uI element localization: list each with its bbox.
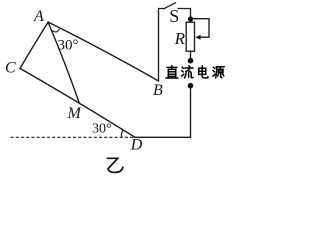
wire line AC [20, 22, 48, 68]
wire incline CD [20, 68, 135, 137]
wire from switch to top-right corner down to junction [178, 9, 191, 17]
svg-text:C: C [5, 60, 16, 77]
svg-text:A: A [33, 8, 44, 25]
angle arc at vertex A [53, 29, 60, 32]
wire resistor bottom to supply top terminal [190, 51, 192, 58]
dashed horizontal baseline at D [11, 136, 135, 138]
supply terminal dot lower [188, 83, 194, 89]
svg-text:30°: 30° [58, 38, 79, 54]
supply terminal dot upper [188, 58, 194, 64]
resistor R body [186, 22, 194, 51]
svg-text:D: D [130, 136, 143, 153]
switch S blade [164, 3, 176, 9]
rheostat tap wire with bend [191, 19, 210, 38]
svg-text:B: B [153, 82, 163, 99]
svg-text:R: R [174, 29, 186, 48]
DC supply label: char dian [199, 66, 208, 78]
svg-text:30°: 30° [92, 122, 112, 137]
rheostat arrow head [195, 35, 200, 40]
figure caption: char yi [107, 158, 123, 172]
wire line AB [48, 22, 159, 81]
angle arc at vertex D [121, 131, 123, 138]
DC supply label: char zhi [166, 66, 178, 78]
DC supply label: char yuan [213, 67, 224, 78]
junction dot at top of resistor [188, 16, 193, 21]
wire supply bottom terminal down and left to D [135, 88, 191, 137]
svg-text:S: S [169, 6, 179, 26]
DC supply label: char liu [182, 66, 194, 78]
wire line AM [48, 22, 79, 102]
wire from node B up to switch [159, 9, 165, 82]
svg-text:M: M [67, 105, 83, 122]
